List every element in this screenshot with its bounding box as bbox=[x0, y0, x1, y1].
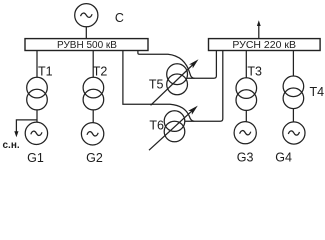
autotransformer T6 bbox=[164, 111, 185, 132]
system source C circle bbox=[75, 4, 98, 27]
outgoing line arrow above right bus bbox=[258, 25, 260, 39]
bus РУВН 500 кВ bbox=[25, 39, 148, 51]
generator G4 bbox=[283, 122, 305, 144]
svg-text:РУСН 220 кВ: РУСН 220 кВ bbox=[232, 39, 296, 51]
tilde of C bbox=[81, 13, 93, 17]
generator G3 bbox=[234, 122, 256, 144]
svg-text:G1: G1 bbox=[27, 151, 44, 165]
wire T3 to G3 bbox=[245, 110, 247, 121]
svg-text:G4: G4 bbox=[275, 150, 292, 164]
bus РУСН 220 кВ bbox=[209, 39, 321, 51]
svg-text:G3: G3 bbox=[237, 150, 254, 164]
wire bus to T4 bbox=[292, 51, 294, 76]
wire T6 to 220kV bus bbox=[185, 51, 223, 122]
wire T4 to G4 bbox=[292, 109, 294, 122]
autotransformer T5 bbox=[167, 64, 188, 85]
svg-text:с.н.: с.н. bbox=[3, 140, 20, 151]
generator G2 bbox=[81, 123, 103, 145]
wire bus to T5 (feed from 500kV bus) bbox=[138, 51, 195, 79]
wire bus to T2 bbox=[92, 51, 94, 78]
generator G1 bbox=[25, 122, 47, 144]
wire T5 to 220kV bus bbox=[187, 51, 217, 79]
wire T1 to G1 bbox=[36, 110, 38, 122]
transformer T2 bbox=[83, 77, 104, 98]
transformer T3 bbox=[236, 78, 257, 99]
svg-text:Т4: Т4 bbox=[310, 85, 325, 99]
svg-text:Т2: Т2 bbox=[93, 64, 108, 78]
T6 regulation arrow bbox=[149, 111, 192, 151]
svg-text:G2: G2 bbox=[86, 151, 103, 165]
svg-text:Т6: Т6 bbox=[149, 119, 164, 133]
svg-text:С: С bbox=[115, 11, 124, 25]
svg-text:Т1: Т1 bbox=[38, 64, 53, 78]
svg-text:Т3: Т3 bbox=[247, 64, 262, 78]
wire bus to T1 bbox=[36, 51, 38, 78]
svg-text:РУВН 500 кВ: РУВН 500 кВ bbox=[57, 40, 117, 51]
wire C to bus bbox=[85, 27, 87, 39]
svg-text:Т5: Т5 bbox=[149, 78, 164, 92]
wire bus to T3 bbox=[245, 51, 247, 78]
T5 regulation arrow bbox=[151, 65, 193, 106]
transformer T1 bbox=[27, 77, 48, 98]
transformer T4 bbox=[283, 76, 304, 97]
aux branch с.н. bbox=[16, 120, 37, 132]
wire bus to T6 (feed from 500kV bus) bbox=[123, 51, 194, 122]
wire T2 to G2 bbox=[92, 110, 94, 123]
